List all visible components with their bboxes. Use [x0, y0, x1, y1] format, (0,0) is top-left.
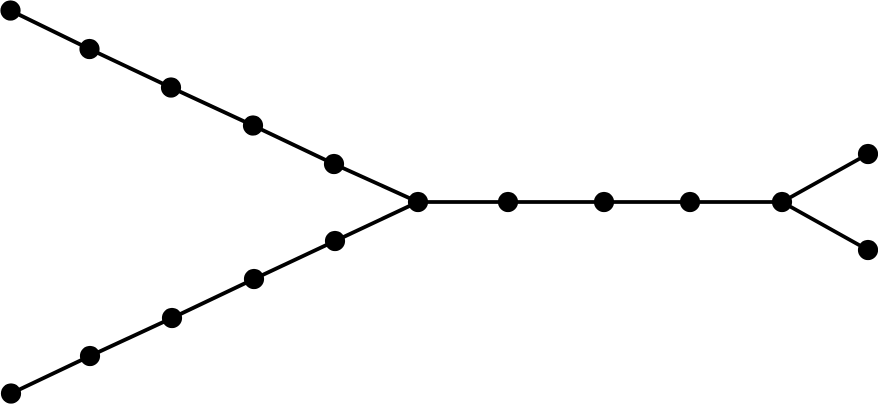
wire edge w1-w2 (bottom branch)	[11, 356, 90, 394]
node m2	[594, 192, 614, 212]
node w1	[1, 383, 21, 403]
wire edge r-b (right fork down)	[782, 202, 868, 250]
wire edge m3-r	[690, 200, 782, 204]
wire edge v5-c (to center hub)	[334, 164, 418, 202]
wire edge r-t (right fork up)	[782, 154, 868, 202]
node v1	[0, 0, 20, 20]
wire edge c-m1 (spine)	[418, 200, 508, 204]
node v3	[161, 77, 181, 97]
wire edge w3-w4	[172, 279, 254, 318]
wire edge w4-w5	[254, 241, 335, 279]
node c (left hub)	[408, 192, 428, 212]
node w5	[325, 231, 345, 251]
node v4	[243, 115, 263, 135]
node b (bottom right leaf)	[858, 240, 878, 260]
wire edge w5-c (to center hub)	[335, 202, 418, 241]
node w3	[162, 308, 182, 328]
wire edge v4-v5	[253, 126, 334, 165]
node t (top right leaf)	[858, 144, 878, 164]
wire edge v3-v4	[171, 88, 253, 126]
node v5	[324, 154, 344, 174]
wire edge w2-w3	[90, 318, 172, 356]
wire edge v1-v2 (top branch)	[11, 11, 90, 50]
node v2	[79, 39, 99, 59]
wire edge m2-m3	[604, 200, 690, 204]
node w4	[244, 269, 264, 289]
node r (right hub)	[772, 192, 792, 212]
wire edge m1-m2	[508, 200, 604, 204]
node m3	[680, 192, 700, 212]
node w2	[80, 346, 100, 366]
wire edge v2-v3	[90, 49, 172, 88]
node m1	[498, 192, 518, 212]
